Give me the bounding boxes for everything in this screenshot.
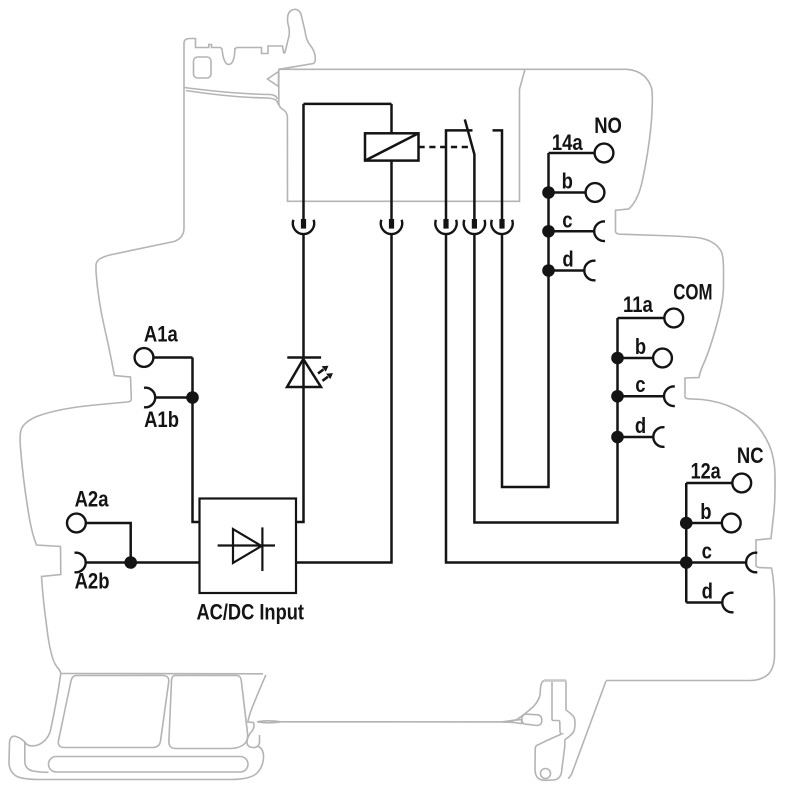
- housing right wall with terminal notches: [606, 69, 775, 680]
- housing foot wall channel: [16, 674, 61, 746]
- wire into coil top: [390, 104, 393, 133]
- junction A1: [186, 391, 199, 404]
- svg-text:d: d: [702, 580, 713, 604]
- svg-text:d: d: [562, 248, 573, 272]
- plug-in connector 3: [435, 219, 456, 234]
- svg-text:c: c: [702, 540, 712, 564]
- wire coil feed left segment: [302, 104, 305, 219]
- actuation dashed link: [419, 146, 472, 149]
- housing foot hook knob outer and bottom edge: [9, 736, 264, 779]
- terminal circle A2a: [67, 514, 86, 533]
- housing flag bottom arc 2: [186, 91, 279, 105]
- wire coil bottom segment: [390, 161, 393, 220]
- svg-text:c: c: [635, 374, 645, 398]
- wire 12 rail: [685, 483, 688, 603]
- housing foot compartment 2: [169, 676, 248, 749]
- rectifier AC/DC input U1: [200, 499, 297, 594]
- svg-text:A2b: A2b: [75, 570, 110, 594]
- terminal circle 14b: [586, 183, 605, 202]
- wire A2a stub: [86, 523, 131, 563]
- junction 12b: [680, 517, 693, 530]
- housing latch lever left flare: [502, 681, 544, 722]
- switch blade and pole: [465, 119, 475, 219]
- wire 12a stub: [686, 482, 732, 485]
- svg-text:A1b: A1b: [144, 409, 179, 433]
- wire 11b stub: [618, 357, 654, 360]
- wire 14c stub: [549, 230, 595, 233]
- terminal circle 11b: [653, 349, 672, 368]
- plug-in connector 2: [381, 219, 402, 234]
- relay coil K1: [365, 133, 419, 160]
- wire 11d stub: [618, 436, 654, 439]
- junction 11d: [611, 431, 624, 444]
- wire LED cathode to rectifier: [296, 387, 304, 522]
- housing flag/latch top-left outline: [184, 9, 315, 87]
- wire pole to COM rail: [474, 234, 617, 522]
- wire rectifier output to coil: [296, 234, 392, 562]
- junction 14b: [542, 186, 555, 199]
- switch contact NC fixed: [446, 130, 473, 219]
- terminal arc 12d: [722, 593, 733, 613]
- wire 11a stub: [618, 317, 665, 320]
- wire A1b stub: [155, 396, 193, 399]
- housing latch top hatch: [544, 679, 566, 682]
- svg-text:b: b: [562, 170, 573, 194]
- svg-text:A2a: A2a: [75, 488, 110, 512]
- svg-text:AC/DC Input: AC/DC Input: [197, 601, 305, 625]
- terminal arc A1b: [144, 388, 155, 408]
- svg-text:COM: COM: [673, 280, 712, 305]
- wire 11c stub: [618, 395, 665, 398]
- switch contact NO fixed: [493, 130, 503, 219]
- svg-text:NC: NC: [737, 445, 764, 469]
- plug-in connector 4: [464, 219, 485, 234]
- terminal circle 12b: [722, 514, 741, 533]
- junction 11c: [611, 390, 624, 403]
- junction 12c: [680, 556, 693, 569]
- housing foot right claw: [247, 675, 266, 748]
- svg-text:11a: 11a: [623, 293, 653, 317]
- svg-text:b: b: [635, 335, 646, 359]
- housing latch inner contour and lower body: [535, 681, 575, 781]
- svg-text:NO: NO: [594, 115, 622, 139]
- housing foot compartment 1: [58, 676, 168, 748]
- housing flag bottom arc 1: [184, 88, 277, 100]
- housing flag triangle detail: [268, 72, 279, 87]
- housing foot slot: [49, 757, 249, 773]
- wire 14a stub: [549, 152, 594, 155]
- svg-text:c: c: [562, 209, 572, 233]
- wire 12d stub: [686, 601, 722, 604]
- plug-in connector 5: [491, 219, 512, 234]
- terminal arc 12c: [746, 553, 757, 573]
- housing latch bottom pin: [541, 769, 551, 779]
- din rail edge line: [257, 720, 522, 724]
- svg-text:12a: 12a: [691, 460, 722, 484]
- housing left wall with terminal notches: [20, 88, 184, 674]
- wire 12c stub: [686, 561, 746, 564]
- wire NO contact to 14 rail: [502, 153, 549, 487]
- junction 14c: [542, 225, 555, 238]
- wire 12b stub: [686, 522, 722, 525]
- housing foot shelf line: [61, 673, 263, 675]
- terminal arc 14d: [584, 261, 595, 281]
- housing relay compartment outline and top edge: [279, 69, 627, 201]
- svg-text:d: d: [635, 414, 646, 438]
- wire coil top link: [304, 103, 392, 106]
- terminal arc 11d: [653, 427, 664, 447]
- svg-text:b: b: [700, 500, 711, 524]
- housing latch rail tooth: [522, 714, 542, 725]
- wire A1 to rectifier: [193, 358, 200, 523]
- junction 14d: [542, 264, 555, 277]
- svg-text:14a: 14a: [552, 132, 583, 156]
- terminal circle A1a: [135, 348, 154, 367]
- housing foot hook knob inner: [25, 741, 49, 772]
- terminal arc 14c: [594, 221, 605, 241]
- wire A1a stub: [153, 356, 192, 359]
- housing latch release diagonal: [568, 681, 606, 779]
- terminal circle 11a: [664, 309, 683, 328]
- wire NC contact to 12 rail: [446, 234, 686, 562]
- terminal arc A2b: [75, 553, 86, 573]
- housing flag hole: [194, 57, 212, 78]
- junction A2: [124, 556, 137, 569]
- LED indicator: [287, 358, 333, 388]
- wire 14b stub: [549, 191, 586, 194]
- junction 11b: [611, 352, 624, 365]
- svg-text:A1a: A1a: [144, 323, 179, 347]
- wire A2b to rectifier: [85, 561, 199, 564]
- wire 14d stub: [549, 269, 585, 272]
- terminal circle 12a: [732, 474, 751, 493]
- plug-in connector 1: [293, 219, 314, 234]
- wire LED anode segment: [302, 234, 305, 357]
- terminal circle 14a: [595, 144, 614, 163]
- terminal arc 11c: [664, 386, 675, 406]
